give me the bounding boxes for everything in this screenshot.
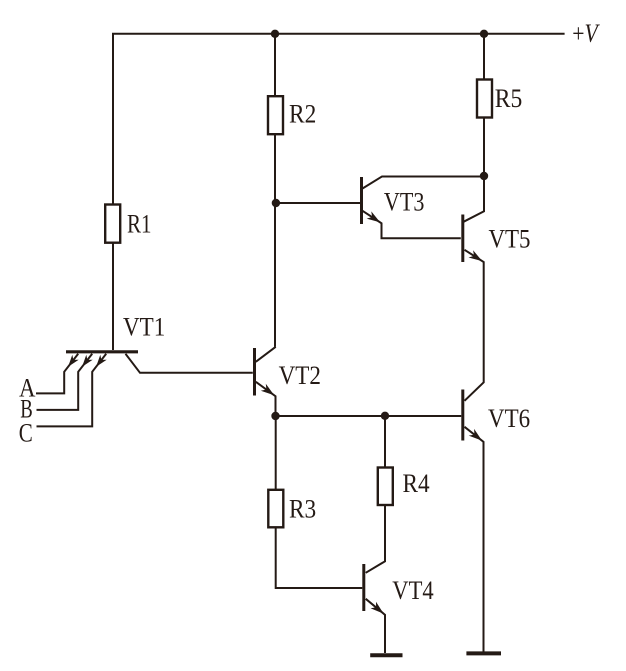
svg-text:VT5: VT5 <box>489 225 531 254</box>
svg-text:VT1: VT1 <box>123 313 165 342</box>
svg-text:R3: R3 <box>289 495 316 524</box>
svg-text:VT6: VT6 <box>488 404 530 433</box>
svg-text:+V: +V <box>572 19 600 48</box>
svg-text:VT4: VT4 <box>392 576 433 605</box>
svg-text:R4: R4 <box>403 469 430 498</box>
svg-text:R2: R2 <box>289 100 316 129</box>
svg-text:VT2: VT2 <box>279 361 321 390</box>
svg-text:VT3: VT3 <box>384 188 425 217</box>
svg-text:R5: R5 <box>495 84 523 113</box>
svg-text:R1: R1 <box>127 210 152 239</box>
svg-text:C: C <box>19 419 33 448</box>
